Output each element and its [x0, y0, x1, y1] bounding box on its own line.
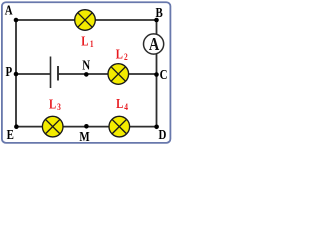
lamp L2 [108, 64, 129, 85]
wire battery-N-C [58, 73, 157, 75]
node N [84, 72, 89, 77]
node M [84, 124, 89, 129]
frame border [2, 2, 171, 143]
battery long plate (+) [50, 57, 52, 89]
wire E-M-D (bottom) [16, 126, 157, 128]
svg-text:A: A [149, 33, 160, 54]
svg-text:P: P [5, 64, 12, 80]
svg-text:C: C [160, 67, 168, 83]
node B [154, 18, 159, 23]
svg-text:E: E [7, 127, 14, 143]
node C [154, 72, 159, 77]
wire A-B (top) [16, 19, 157, 21]
lamp L4 [109, 116, 130, 137]
node A [14, 18, 19, 23]
wire P-battery [16, 73, 51, 75]
node P [14, 72, 19, 77]
ammeter U1 [144, 33, 164, 54]
svg-text:B: B [156, 5, 164, 21]
lamp L3 [42, 116, 63, 137]
svg-text:A: A [5, 2, 13, 18]
node E [14, 124, 19, 129]
battery short plate (-) [57, 66, 59, 81]
svg-text:N: N [82, 57, 90, 73]
svg-text:M: M [79, 129, 89, 145]
wire A-P-E (left rail) [15, 20, 17, 127]
lamp L1 [75, 10, 96, 31]
wire B-C-D (right rail) [156, 20, 158, 127]
node D [154, 125, 159, 130]
svg-text:D: D [159, 127, 167, 143]
